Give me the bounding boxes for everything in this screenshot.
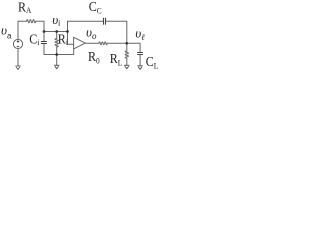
svg-text:υℓ: υℓ: [135, 26, 145, 42]
wire RA to input node: [36, 21, 44, 31]
svg-text:υa: υa: [1, 22, 12, 40]
wire bottom bus: [44, 49, 74, 55]
wire source top to RA row: [18, 21, 27, 39]
wire amp output: [85, 42, 99, 44]
wire CL bottom lead: [139, 55, 141, 66]
svg-text:RL: RL: [110, 50, 123, 68]
svg-text:υi: υi: [52, 12, 60, 28]
wire Ri bottom lead: [56, 47, 58, 55]
capacitor Ci: [41, 42, 46, 44]
svg-text:CL: CL: [146, 53, 159, 71]
source va circle: [13, 39, 22, 48]
op-amp triangle: [74, 37, 86, 49]
resistor RA: [27, 20, 36, 23]
wire input node bus: [44, 31, 68, 33]
node dot bottom bus junction: [55, 53, 58, 56]
resistor RL: [125, 51, 128, 58]
wire CC branch: [68, 21, 104, 44]
ground under source: [15, 66, 20, 69]
wire CC to output node: [106, 21, 127, 43]
wire Ci bottom lead: [43, 44, 45, 55]
resistor Ri: [55, 39, 58, 48]
svg-text:Ci: Ci: [29, 31, 40, 48]
wire Ci top lead: [43, 32, 45, 42]
capacitor CC: [104, 18, 106, 24]
wire RL top lead: [126, 43, 128, 51]
wire amp input: [68, 43, 74, 45]
svg-text:RA: RA: [18, 0, 32, 15]
node dot Ri junction: [55, 30, 58, 33]
svg-text:CC: CC: [89, 0, 102, 16]
node dot CC branch junction: [66, 30, 69, 33]
svg-text:υo: υo: [86, 25, 97, 41]
node dot output junction: [125, 42, 128, 45]
svg-text:Ri: Ri: [58, 31, 69, 48]
capacitor CL: [138, 53, 143, 55]
wire ground stub: [56, 55, 58, 66]
svg-text:R0: R0: [88, 48, 100, 66]
source polarity minus: [17, 46, 19, 48]
wire R0 to CL corner: [107, 43, 140, 52]
wire Ri top lead: [56, 32, 58, 39]
wire RL bottom lead: [126, 58, 128, 65]
node dot input-RA junction: [43, 30, 46, 33]
resistor R0: [99, 42, 107, 45]
source polarity plus: [17, 40, 19, 42]
ground under Ci/Ri node: [54, 65, 59, 68]
ground under RL: [124, 65, 129, 68]
wire source bottom lead: [17, 49, 19, 66]
ground under CL: [137, 66, 142, 69]
